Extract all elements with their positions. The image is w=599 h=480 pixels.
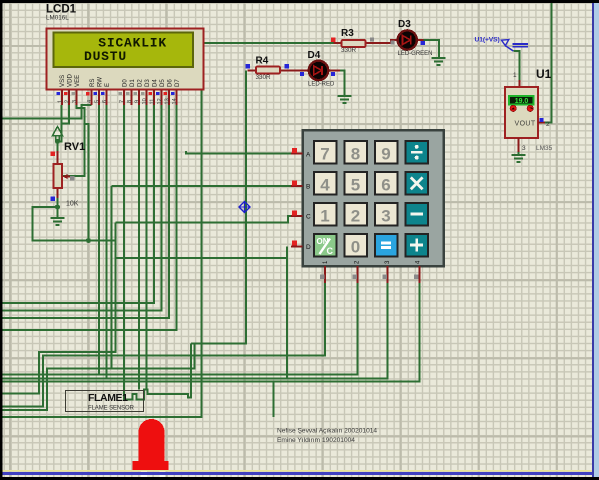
wire D0 down with hook: [124, 105, 191, 399]
LCD pin names: [59, 74, 181, 87]
svg-text:Emine Yıldırım 190201004: Emine Yıldırım 190201004: [277, 437, 355, 444]
svg-text:C: C: [327, 246, 334, 256]
svg-text:LM016L: LM016L: [46, 15, 69, 22]
keypad row labels: [306, 152, 311, 252]
keypad row pin stubs: [291, 148, 303, 246]
power flag U1(+VS): [475, 37, 529, 81]
keypad KEYPAD-CALC body: [303, 130, 444, 266]
wire D6 to left edge: [0, 105, 169, 318]
wire D2 down: [138, 105, 140, 389]
LCD LM016L body: [47, 29, 204, 90]
svg-text:U1: U1: [536, 67, 552, 81]
svg-text:FLAME1: FLAME1: [88, 392, 128, 404]
flame sensor LED bulb: [132, 419, 168, 478]
svg-text:D2: D2: [137, 79, 144, 87]
potentiometer RV1: [51, 141, 86, 208]
LCD pin stubs: [62, 90, 177, 105]
wire keypad col4 to left: [0, 283, 419, 382]
svg-text:330R: 330R: [341, 47, 357, 54]
svg-text:RS: RS: [89, 79, 96, 87]
svg-text:1: 1: [58, 100, 64, 103]
wire D4 to left edge: [0, 105, 154, 303]
LED D3: [398, 19, 433, 57]
svg-text:D: D: [306, 244, 311, 251]
wire col4 branch down to flame row: [273, 382, 275, 417]
wire RV1 ground loop: [33, 207, 116, 241]
svg-text:6: 6: [381, 176, 390, 195]
wire row D down: [286, 246, 288, 378]
svg-text:1: 1: [320, 207, 329, 226]
svg-text:Nefise Şevval Açıkalın 2002010: Nefise Şevval Açıkalın 200201014: [277, 428, 377, 435]
svg-text:RV1: RV1: [64, 141, 85, 153]
sensor U1 LM35: [505, 67, 553, 152]
wire keypad row C: [116, 216, 293, 222]
wire D3 to ground: [423, 40, 439, 58]
svg-text:7: 7: [320, 145, 329, 164]
svg-text:FLAME SENSOR: FLAME SENSOR: [88, 406, 135, 412]
svg-text:8: 8: [351, 145, 360, 164]
svg-text:10K: 10K: [66, 201, 79, 208]
annotation student names: [277, 428, 377, 445]
ground below RV1: [51, 207, 65, 225]
keypad column pin stubs: [320, 266, 420, 283]
wire LCD corner down to flame row: [0, 90, 202, 417]
svg-text:VSS: VSS: [59, 75, 66, 87]
svg-text:0: 0: [351, 238, 360, 257]
ground below D4: [338, 96, 352, 103]
wire RS to left edge: [0, 105, 92, 119]
LCD LCD1 label: [46, 4, 77, 22]
svg-text:4: 4: [87, 100, 93, 103]
power arrow above RV1: [53, 127, 63, 142]
wire D4 to ground: [340, 70, 345, 96]
svg-text:19.0: 19.0: [515, 98, 529, 105]
svg-text:13: 13: [165, 98, 171, 104]
svg-text:4: 4: [320, 176, 330, 195]
keypad column numbers: [323, 260, 422, 264]
svg-text:1: 1: [513, 72, 517, 79]
svg-text:3: 3: [381, 207, 390, 226]
wire row C down to left: [0, 223, 116, 394]
svg-text:VDD: VDD: [67, 74, 74, 87]
wire VSS down to RV1 node: [58, 105, 62, 142]
svg-text:5: 5: [95, 100, 101, 103]
svg-text:5: 5: [351, 176, 360, 195]
cursor crosshair: [239, 202, 250, 213]
wire row B down: [112, 186, 195, 368]
svg-text:D3: D3: [144, 79, 151, 87]
wire RW down: [98, 105, 100, 375]
LCD pin numbers: [58, 98, 179, 104]
flame sensor FLAME1 labels: [66, 391, 144, 412]
wire VEE to wiper: [62, 105, 85, 176]
svg-text:6: 6: [102, 100, 108, 103]
svg-text:11: 11: [150, 99, 156, 105]
svg-text:3: 3: [72, 100, 78, 103]
svg-text:D7: D7: [174, 79, 181, 87]
svg-text:VOUT: VOUT: [515, 121, 536, 128]
svg-text:B: B: [306, 184, 310, 191]
LCD pin squares: [57, 92, 175, 96]
svg-text:D6: D6: [167, 79, 174, 87]
wire VDD to RV1 top: [62, 105, 70, 124]
wire D5 to left edge: [0, 105, 162, 311]
svg-text:12: 12: [157, 98, 163, 104]
junction RV1 top: [55, 139, 60, 144]
pin stubs R3 D3 R4 D4: [248, 40, 424, 70]
wire D3 pin down: [146, 105, 148, 389]
svg-text:VEE: VEE: [74, 75, 81, 87]
svg-text:C: C: [306, 214, 311, 221]
svg-text:D4: D4: [308, 50, 321, 61]
svg-text:2: 2: [65, 100, 71, 103]
svg-text:8: 8: [127, 100, 133, 103]
svg-text:D3: D3: [398, 19, 411, 30]
svg-text:2: 2: [351, 207, 360, 226]
wire keypad col3 to left: [0, 283, 388, 379]
wire R3 chain from LCD: [204, 42, 334, 44]
wire row B branch left: [0, 369, 112, 411]
svg-text:LED-GREEN: LED-GREEN: [398, 51, 433, 57]
svg-text:LED-RED: LED-RED: [308, 82, 335, 88]
junction RV1 bottom: [55, 204, 60, 209]
wire VEE branch to ground loop: [85, 124, 89, 241]
wire keypad row B: [112, 185, 293, 187]
wire R4 to staircase: [191, 71, 246, 344]
svg-text:E: E: [104, 83, 111, 87]
svg-text:D4: D4: [152, 79, 159, 87]
wire keypad row A: [186, 151, 292, 154]
svg-text:7: 7: [120, 100, 126, 103]
svg-text:10: 10: [142, 98, 148, 104]
svg-text:LM35: LM35: [536, 145, 553, 152]
resistor R3: [331, 28, 395, 54]
svg-text:U1(+VS): U1(+VS): [475, 37, 500, 44]
svg-text:330R: 330R: [256, 74, 272, 81]
svg-text:A: A: [306, 152, 311, 159]
wire D7 to left edge: [0, 105, 177, 330]
svg-text:D1: D1: [129, 79, 136, 87]
svg-text:RW: RW: [97, 77, 104, 87]
svg-text:2: 2: [546, 121, 550, 128]
svg-text:D5: D5: [159, 79, 166, 87]
svg-text:R4: R4: [256, 56, 269, 67]
keypad buttons: [314, 141, 428, 257]
svg-text:3: 3: [522, 145, 526, 152]
wire E down: [106, 105, 108, 379]
wire keypad col2 to left: [0, 283, 358, 375]
svg-text:DUSTU: DUSTU: [84, 49, 127, 64]
svg-text:14: 14: [172, 98, 178, 104]
svg-text:9: 9: [381, 145, 390, 164]
wire mid horizontal: [116, 257, 288, 259]
svg-text:R3: R3: [341, 28, 354, 39]
wire U1 pin2 up: [545, 0, 552, 123]
junction ground loop: [86, 238, 91, 243]
LED D4: [300, 50, 335, 88]
wire keypad col1 to left: [0, 283, 325, 407]
ground below D3: [432, 58, 446, 65]
svg-text:9: 9: [135, 100, 141, 103]
ground below U1: [512, 152, 526, 162]
svg-text:D0: D0: [122, 79, 129, 87]
resistor R4: [246, 56, 290, 82]
